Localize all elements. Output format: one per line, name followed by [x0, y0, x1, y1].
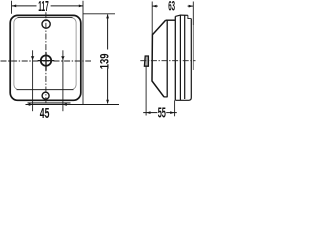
svg-text:55: 55 — [158, 105, 166, 121]
svg-text:139: 139 — [99, 53, 112, 69]
svg-text:63: 63 — [168, 0, 175, 14]
svg-text:117: 117 — [38, 0, 48, 15]
svg-text:45: 45 — [40, 106, 50, 122]
